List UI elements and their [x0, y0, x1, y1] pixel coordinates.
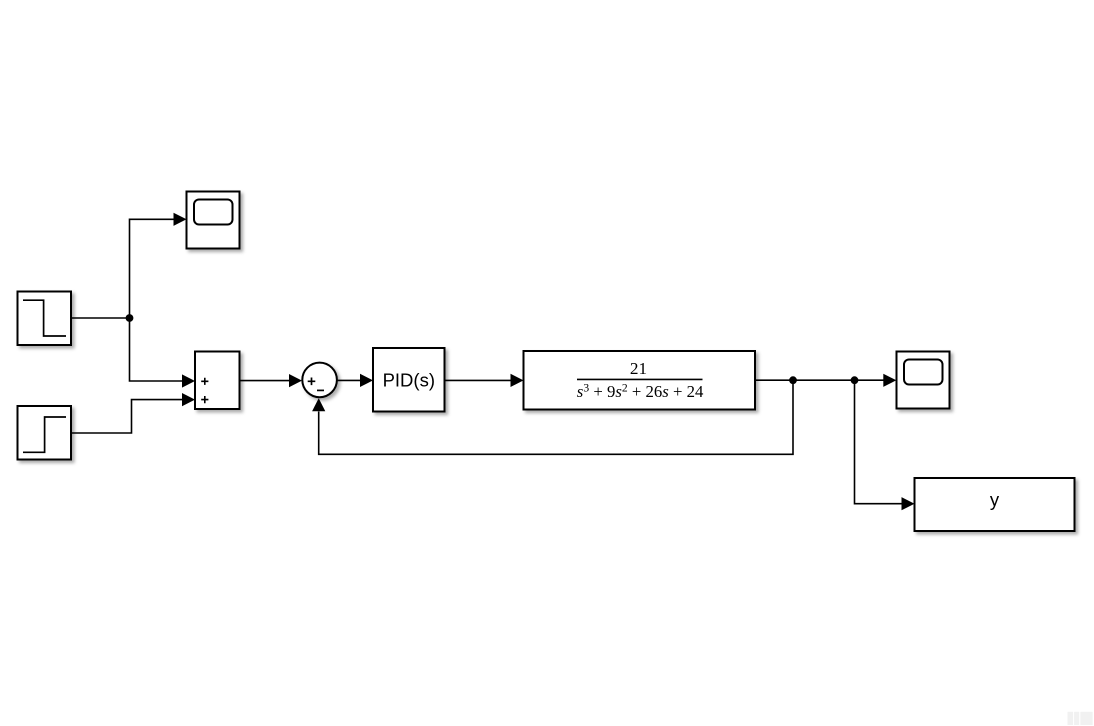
block: Step1 source (step-down) [18, 292, 72, 346]
label: PID(s) text [383, 370, 435, 391]
icon: Scope1 screen [194, 200, 233, 225]
watermark: three light-gray tiles bottom-right [1068, 712, 1093, 725]
label: denominator s^3+9s^2+26s+24 [577, 381, 704, 401]
node: junction dot feedback tap [789, 376, 797, 384]
svg-text:s3 + 9s2 + 26s + 24: s3 + 9s2 + 26s + 24 [577, 381, 704, 401]
block: Scope1 [187, 192, 240, 249]
wire: summing circle output to PID [338, 374, 374, 387]
label: plus sign input 2 [201, 396, 208, 403]
block: To-Workspace y [915, 478, 1075, 531]
svg-text:21: 21 [630, 359, 647, 378]
wire: feedback path to summing circle bottom [312, 380, 793, 454]
icon: step-down waveform [23, 300, 66, 336]
fraction bar [577, 378, 703, 380]
block: PID controller [373, 348, 445, 412]
label: plus sign input 1 [201, 378, 208, 385]
wire: Sum output to summing circle [240, 374, 303, 387]
icon: Scope2 screen [904, 360, 943, 385]
label: plus sign in circle [308, 378, 316, 386]
icon: step-up waveform [23, 417, 66, 452]
block: Sum (rectangular, + +) [195, 352, 240, 410]
block: Scope2 [897, 352, 950, 409]
wire: Step2 output to Sum input 2 [71, 393, 195, 433]
wire: transfer function output to Scope2 [755, 374, 896, 387]
label: minus sign in circle [317, 389, 324, 391]
svg-text:y: y [990, 489, 1000, 510]
node: junction dot to-workspace tap [851, 376, 859, 384]
svg-text:PID(s): PID(s) [383, 370, 435, 391]
label: numerator 21 [630, 359, 647, 378]
wire: junction up to Scope1 [130, 213, 187, 318]
wire: junction down to Sum input 1 [130, 318, 196, 388]
label: y text [990, 489, 1000, 510]
wire: PID output to transfer function [445, 374, 524, 387]
block: Step2 source (step-up) [18, 406, 72, 460]
wire: Step1 output to junction [71, 317, 129, 319]
wire: tap down to y block [855, 380, 915, 510]
block: transfer function 21/(s^3+9s^2+26s+24) [524, 351, 756, 410]
block: summing circle (+ -) [302, 363, 337, 398]
node: junction dot after Step1 [126, 314, 134, 322]
